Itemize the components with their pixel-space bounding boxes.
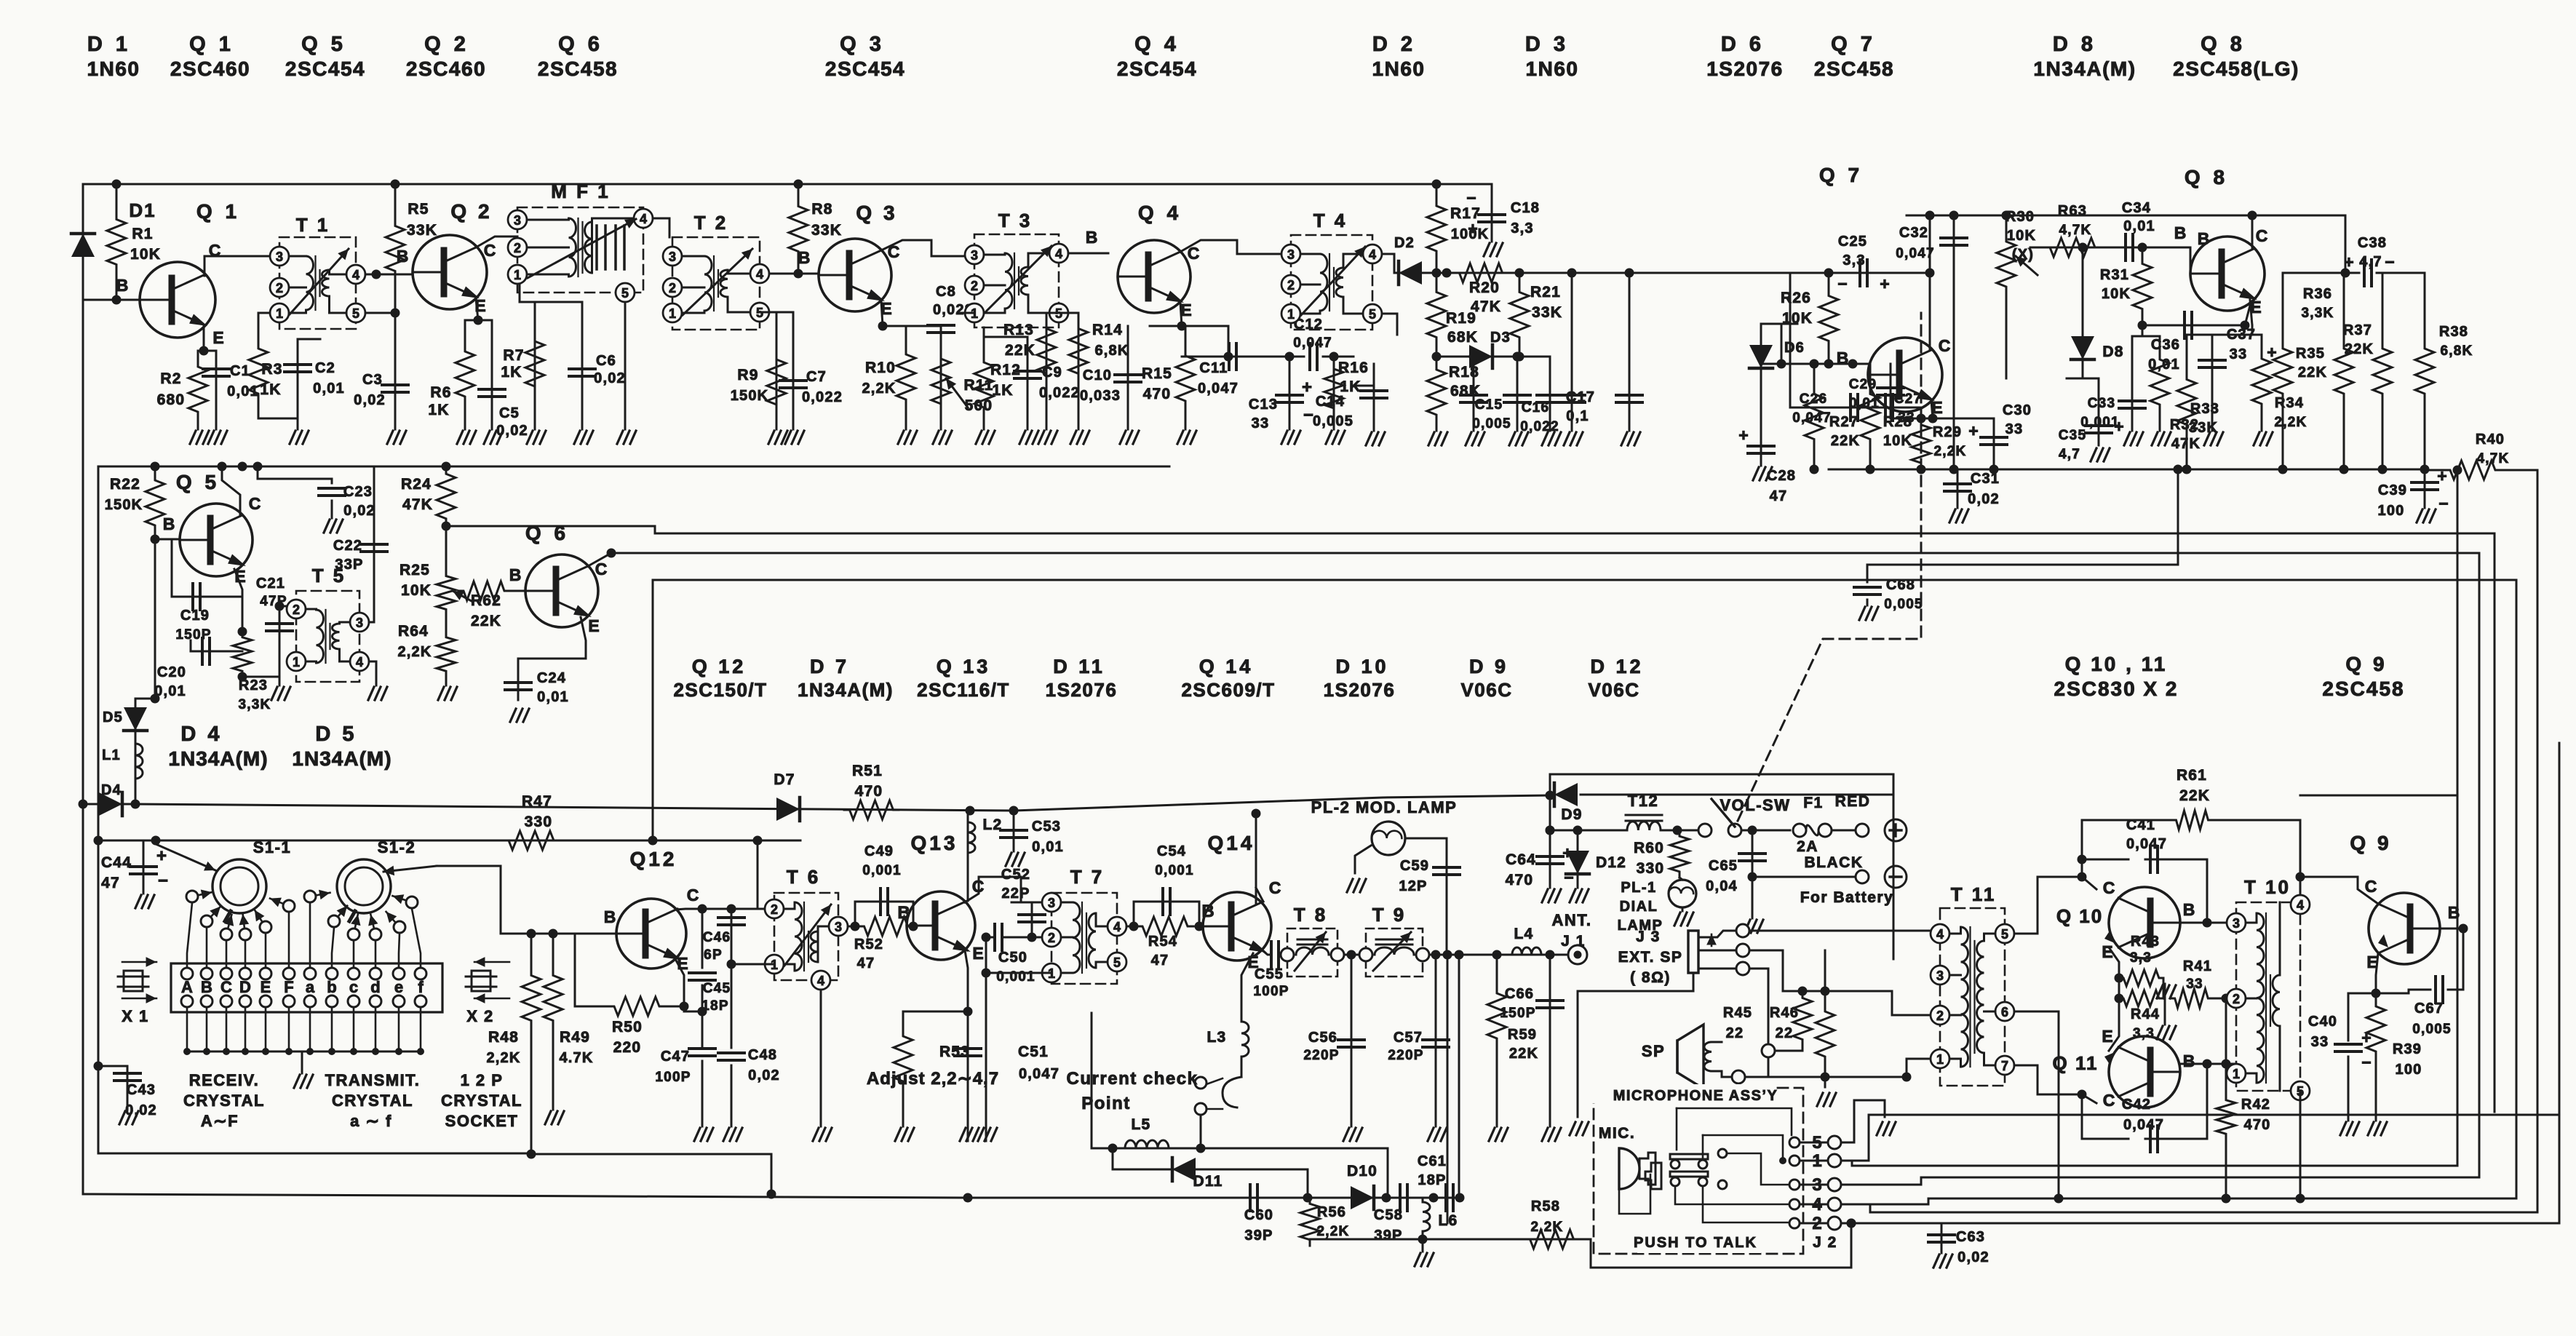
svg-text:Q 7: Q 7	[1831, 33, 1876, 56]
svg-text:2: 2	[2233, 992, 2240, 1006]
svg-text:a ∼ f: a ∼ f	[350, 1112, 392, 1130]
svg-text:22K: 22K	[2345, 341, 2374, 357]
svg-text:R49: R49	[560, 1029, 590, 1046]
svg-text:+: +	[1880, 274, 1889, 293]
svg-text:150P: 150P	[175, 627, 211, 643]
svg-text:2,2K: 2,2K	[397, 644, 432, 660]
svg-text:ANT.: ANT.	[1552, 911, 1592, 929]
svg-text:0,02: 0,02	[1957, 1249, 1989, 1265]
svg-text:C56: C56	[1308, 1030, 1337, 1046]
svg-text:C: C	[249, 494, 261, 513]
svg-text:39P: 39P	[1244, 1228, 1273, 1244]
svg-text:C65: C65	[1709, 858, 1738, 874]
svg-text:R18: R18	[1449, 364, 1479, 381]
svg-text:3: 3	[971, 248, 978, 263]
svg-text:2SC458: 2SC458	[538, 57, 618, 80]
svg-text:Q 12: Q 12	[692, 656, 747, 677]
svg-text:F1: F1	[1803, 795, 1824, 811]
svg-text:10K: 10K	[2007, 228, 2036, 244]
svg-text:0,01: 0,01	[2123, 218, 2155, 234]
svg-text:R64: R64	[398, 623, 429, 640]
svg-text:−: −	[1303, 405, 1313, 425]
svg-text:1S2076: 1S2076	[1324, 679, 1396, 701]
svg-text:0,02: 0,02	[1968, 491, 2000, 507]
svg-text:330: 330	[1637, 860, 1665, 877]
svg-text:R59: R59	[1508, 1027, 1537, 1043]
svg-text:12P: 12P	[1399, 878, 1427, 894]
svg-text:C13: C13	[1249, 397, 1278, 413]
svg-text:V06C: V06C	[1460, 679, 1512, 701]
svg-text:R24: R24	[401, 476, 432, 493]
svg-text:D1: D1	[129, 199, 156, 221]
svg-text:C3: C3	[362, 372, 383, 388]
svg-text:4: 4	[352, 268, 359, 282]
svg-text:R26: R26	[1781, 290, 1811, 306]
svg-text:T 6: T 6	[787, 866, 821, 888]
svg-text:B: B	[2183, 900, 2195, 919]
svg-text:−: −	[1564, 868, 1573, 887]
svg-text:150K: 150K	[105, 497, 143, 513]
svg-text:2,2K: 2,2K	[1934, 444, 1967, 459]
svg-text:R31: R31	[2100, 267, 2129, 283]
svg-text:3: 3	[1936, 969, 1944, 983]
svg-text:22K: 22K	[1509, 1046, 1538, 1062]
svg-text:C25: C25	[1838, 234, 1867, 250]
svg-text:+: +	[1468, 219, 1477, 238]
svg-text:150P: 150P	[1500, 1006, 1535, 1021]
svg-text:X 2: X 2	[466, 1007, 494, 1025]
svg-text:B: B	[2174, 223, 2187, 242]
svg-text:C67: C67	[2414, 1001, 2444, 1017]
svg-text:5: 5	[621, 286, 629, 301]
svg-text:0,01: 0,01	[537, 689, 569, 705]
svg-text:2: 2	[669, 281, 676, 295]
svg-text:D 5: D 5	[315, 723, 357, 746]
svg-text:C61: C61	[1418, 1153, 1447, 1169]
svg-text:2SC830 X 2: 2SC830 X 2	[2054, 677, 2179, 700]
svg-text:L4: L4	[1514, 926, 1534, 942]
svg-text:33K: 33K	[1532, 304, 1562, 321]
svg-text:33: 33	[2186, 977, 2203, 992]
svg-text:L5: L5	[1132, 1116, 1151, 1133]
svg-text:Q 4: Q 4	[1138, 202, 1182, 224]
svg-text:220P: 220P	[1388, 1048, 1423, 1063]
svg-text:0,005: 0,005	[1313, 413, 1353, 429]
svg-text:D11: D11	[1193, 1173, 1223, 1190]
svg-text:5: 5	[1369, 307, 1376, 322]
svg-text:3: 3	[2233, 916, 2240, 931]
svg-text:RECEIV.: RECEIV.	[189, 1071, 260, 1089]
svg-text:R7: R7	[503, 347, 524, 364]
svg-text:C44: C44	[101, 854, 132, 871]
svg-text:Q 1: Q 1	[189, 33, 234, 56]
svg-text:Q 6: Q 6	[558, 33, 603, 56]
svg-text:R1: R1	[132, 226, 153, 242]
svg-text:0,02: 0,02	[748, 1067, 780, 1083]
svg-text:47: 47	[101, 875, 120, 891]
svg-text:0,02: 0,02	[496, 423, 528, 439]
svg-text:D 6: D 6	[1721, 33, 1765, 56]
svg-text:0,02: 0,02	[594, 370, 626, 386]
svg-text:2SC458(LG): 2SC458(LG)	[2173, 57, 2299, 80]
svg-text:C49: C49	[864, 843, 894, 859]
svg-text:R53: R53	[939, 1043, 970, 1060]
svg-text:Q 13: Q 13	[937, 656, 991, 677]
svg-text:SP: SP	[1642, 1042, 1665, 1060]
svg-text:B: B	[604, 907, 616, 926]
svg-text:330: 330	[525, 814, 553, 830]
svg-text:R29: R29	[1933, 424, 1962, 440]
svg-text:C42: C42	[2122, 1097, 2151, 1113]
svg-text:2: 2	[971, 279, 978, 293]
svg-text:4: 4	[640, 212, 647, 226]
svg-text:2SC460: 2SC460	[170, 57, 250, 80]
svg-text:D 11: D 11	[1053, 656, 1105, 677]
svg-text:R13: R13	[1003, 322, 1034, 338]
svg-text:0,1: 0,1	[1566, 408, 1589, 424]
svg-text:CRYSTAL: CRYSTAL	[183, 1092, 265, 1110]
svg-text:3: 3	[276, 250, 283, 264]
svg-text:Q 10 , 11: Q 10 , 11	[2065, 653, 2168, 675]
svg-text:1S2076: 1S2076	[1046, 679, 1118, 701]
svg-text:C10: C10	[1083, 367, 1112, 383]
svg-text:4: 4	[1369, 247, 1376, 262]
svg-text:Q 14: Q 14	[1199, 656, 1254, 677]
svg-text:2A: 2A	[1797, 838, 1818, 855]
svg-text:4: 4	[1055, 247, 1062, 261]
svg-text:C41: C41	[2126, 817, 2155, 833]
svg-text:R36: R36	[2303, 286, 2332, 302]
svg-text:C: C	[687, 886, 699, 904]
svg-text:C43: C43	[127, 1082, 156, 1098]
svg-text:4: 4	[356, 655, 363, 669]
svg-text:2: 2	[771, 902, 778, 917]
svg-text:R52: R52	[854, 937, 883, 953]
svg-text:1K: 1K	[501, 364, 522, 381]
svg-text:1K: 1K	[260, 381, 281, 398]
svg-text:6: 6	[2001, 1005, 2008, 1019]
svg-text:Q 4: Q 4	[1134, 33, 1180, 56]
svg-text:0,022: 0,022	[1039, 385, 1080, 401]
svg-text:C64: C64	[1506, 851, 1536, 868]
svg-text:C1: C1	[230, 363, 250, 379]
svg-text:Q12: Q12	[630, 848, 677, 870]
svg-text:R56: R56	[1317, 1204, 1346, 1220]
svg-text:R44: R44	[2131, 1006, 2160, 1022]
svg-text:C52: C52	[1001, 867, 1030, 883]
svg-text:D10: D10	[1347, 1163, 1378, 1180]
svg-text:2SC454: 2SC454	[285, 57, 365, 80]
svg-text:R60: R60	[1634, 840, 1664, 856]
svg-text:33: 33	[2311, 1034, 2329, 1050]
svg-text:33P: 33P	[335, 557, 363, 573]
svg-text:Q 10: Q 10	[2056, 905, 2103, 927]
svg-text:C: C	[1939, 336, 1951, 355]
svg-text:2: 2	[1936, 1009, 1944, 1023]
svg-text:E: E	[2102, 1027, 2112, 1046]
svg-text:B: B	[2183, 1051, 2195, 1070]
svg-text:0,01: 0,01	[1032, 839, 1064, 855]
svg-text:C53: C53	[1032, 819, 1061, 835]
svg-text:R37: R37	[2343, 322, 2372, 338]
svg-text:47: 47	[1770, 488, 1788, 504]
svg-text:1K: 1K	[992, 382, 1013, 399]
svg-text:C: C	[1269, 878, 1281, 897]
svg-text:C: C	[2365, 877, 2377, 896]
svg-text:X 1: X 1	[122, 1007, 149, 1025]
svg-text:4.7K: 4.7K	[559, 1050, 593, 1066]
svg-text:0,02: 0,02	[125, 1102, 157, 1118]
svg-text:C51: C51	[1018, 1043, 1049, 1060]
svg-text:C2: C2	[315, 360, 335, 376]
svg-text:C46: C46	[703, 930, 731, 945]
svg-text:Point: Point	[1081, 1094, 1131, 1113]
svg-text:22K: 22K	[2298, 365, 2327, 381]
svg-text:10K: 10K	[401, 582, 432, 599]
svg-text:+: +	[2114, 417, 2123, 436]
svg-text:0,02: 0,02	[343, 503, 375, 519]
svg-text:Q 5: Q 5	[301, 33, 346, 56]
svg-text:6,8K: 6,8K	[1094, 343, 1129, 359]
svg-text:1S2076: 1S2076	[1706, 57, 1784, 80]
svg-text:T12: T12	[1628, 792, 1658, 810]
svg-text:R45: R45	[1723, 1005, 1752, 1021]
svg-text:22K: 22K	[1005, 342, 1035, 359]
svg-text:CRYSTAL: CRYSTAL	[441, 1092, 522, 1110]
svg-text:22K: 22K	[1831, 433, 1860, 449]
svg-text:J 2: J 2	[1813, 1234, 1837, 1251]
svg-text:R28: R28	[1883, 414, 1912, 430]
svg-text:1: 1	[669, 306, 676, 321]
svg-text:1: 1	[293, 655, 300, 669]
svg-text:A∼F: A∼F	[201, 1112, 239, 1130]
svg-text:3: 3	[514, 213, 521, 228]
svg-text:For Battery: For Battery	[1800, 889, 1894, 906]
svg-text:S1-1: S1-1	[253, 838, 291, 856]
svg-text:B: B	[509, 565, 522, 584]
svg-text:C45: C45	[703, 981, 731, 996]
svg-text:T 1: T 1	[296, 214, 330, 236]
svg-text:7: 7	[2001, 1059, 2008, 1073]
svg-text:100P: 100P	[1253, 984, 1289, 999]
svg-text:R42: R42	[2241, 1097, 2270, 1113]
svg-text:Q 9: Q 9	[2350, 832, 2391, 854]
svg-text:T 2: T 2	[694, 212, 728, 234]
svg-text:C: C	[484, 241, 496, 260]
svg-text:E: E	[212, 328, 223, 347]
svg-text:R39: R39	[2393, 1041, 2422, 1057]
svg-text:R62: R62	[471, 592, 501, 609]
svg-text:PL-1: PL-1	[1621, 880, 1656, 896]
svg-text:2,2K: 2,2K	[1317, 1224, 1350, 1239]
svg-text:1N34A(M): 1N34A(M)	[2033, 57, 2136, 80]
svg-text:C39: C39	[2378, 482, 2407, 498]
svg-text:C66: C66	[1505, 986, 1534, 1002]
svg-text:+: +	[1302, 378, 1312, 397]
svg-text:22: 22	[1726, 1025, 1744, 1041]
svg-text:C63: C63	[1956, 1229, 1985, 1245]
svg-text:A: A	[181, 978, 193, 996]
svg-text:L6: L6	[1439, 1212, 1458, 1229]
svg-text:S1-2: S1-2	[378, 838, 416, 856]
svg-text:1: 1	[1287, 307, 1295, 322]
svg-text:T 3: T 3	[998, 210, 1033, 231]
svg-text:2SC458: 2SC458	[2322, 677, 2404, 700]
svg-text:33: 33	[2005, 421, 2024, 437]
svg-text:1K: 1K	[428, 402, 449, 418]
svg-text:0,005: 0,005	[2412, 1022, 2452, 1037]
svg-text:10K: 10K	[1883, 433, 1912, 449]
svg-text:R9: R9	[737, 367, 758, 383]
svg-text:2,2K: 2,2K	[1531, 1220, 1564, 1235]
svg-text:100P: 100P	[655, 1070, 691, 1085]
svg-text:a: a	[306, 978, 315, 996]
svg-text:C34: C34	[2122, 200, 2151, 216]
svg-text:C36: C36	[2151, 337, 2180, 353]
svg-text:C28: C28	[1767, 468, 1796, 484]
svg-text:Q 11: Q 11	[2053, 1052, 2099, 1074]
svg-text:D 7: D 7	[810, 656, 849, 677]
svg-text:D3: D3	[1490, 330, 1511, 346]
svg-text:33K: 33K	[2189, 420, 2218, 436]
svg-text:C: C	[2103, 1091, 2115, 1110]
svg-text:E: E	[588, 616, 599, 635]
svg-text:EXT. SP: EXT. SP	[1618, 949, 1683, 966]
svg-text:F: F	[284, 978, 293, 996]
svg-text:33K: 33K	[407, 222, 437, 239]
svg-text:1N34A(M): 1N34A(M)	[292, 747, 391, 770]
svg-text:0,005: 0,005	[1472, 416, 1511, 432]
svg-text:33K: 33K	[811, 222, 842, 239]
svg-text:D2: D2	[1394, 235, 1415, 251]
svg-text:33: 33	[2230, 346, 2248, 362]
svg-text:220: 220	[613, 1039, 642, 1056]
svg-text:Q 2: Q 2	[450, 200, 492, 223]
svg-text:R22: R22	[110, 476, 140, 493]
svg-text:0,033: 0,033	[1080, 388, 1121, 404]
svg-text:C29: C29	[1849, 377, 1877, 392]
svg-text:D 9: D 9	[1469, 656, 1508, 677]
svg-text:D7: D7	[774, 771, 795, 788]
svg-text:2SC458: 2SC458	[1814, 57, 1894, 80]
svg-text:3,3: 3,3	[1511, 220, 1533, 236]
svg-text:C7: C7	[806, 369, 827, 385]
svg-text:R2: R2	[160, 370, 181, 387]
svg-text:0,001: 0,001	[862, 863, 902, 878]
svg-text:DIAL: DIAL	[1620, 899, 1658, 915]
svg-text:1: 1	[276, 306, 283, 321]
svg-text:C22: C22	[333, 538, 362, 554]
svg-text:0,047: 0,047	[2123, 1117, 2164, 1133]
svg-text:V06C: V06C	[1588, 679, 1639, 701]
svg-text:4: 4	[1936, 927, 1944, 942]
svg-text:R58: R58	[1531, 1198, 1560, 1214]
svg-text:4: 4	[2297, 898, 2304, 912]
svg-text:C38: C38	[2358, 235, 2387, 251]
svg-text:C15: C15	[1475, 397, 1503, 413]
svg-text:47K: 47K	[402, 496, 433, 513]
svg-text:2SC150/T: 2SC150/T	[673, 679, 767, 701]
svg-text:−: −	[1837, 274, 1847, 293]
svg-text:R19: R19	[1446, 310, 1476, 327]
svg-text:R15: R15	[1142, 365, 1172, 382]
svg-text:C50: C50	[998, 950, 1027, 966]
svg-text:4,7: 4,7	[2059, 447, 2080, 462]
svg-text:4: 4	[1113, 920, 1121, 934]
svg-text:0,047: 0,047	[2126, 836, 2167, 852]
svg-text:( 8Ω): ( 8Ω)	[1630, 969, 1671, 986]
svg-text:Q13: Q13	[911, 832, 958, 854]
svg-text:L3: L3	[1207, 1029, 1227, 1046]
svg-text:2SC460: 2SC460	[406, 57, 486, 80]
svg-text:R5: R5	[408, 201, 429, 218]
svg-text:2: 2	[1048, 931, 1055, 945]
svg-text:J 3: J 3	[1636, 929, 1661, 945]
svg-text:Q 3: Q 3	[856, 202, 897, 224]
svg-text:4: 4	[756, 267, 763, 282]
svg-text:+: +	[2361, 1028, 2371, 1047]
svg-text:C58: C58	[1374, 1207, 1403, 1223]
svg-text:1 2 P: 1 2 P	[461, 1071, 504, 1089]
svg-text:C30: C30	[2003, 402, 2032, 418]
svg-text:R43: R43	[2131, 934, 2160, 950]
svg-text:R50: R50	[612, 1019, 643, 1035]
svg-text:B: B	[397, 247, 409, 266]
svg-text:22K: 22K	[471, 613, 501, 629]
svg-text:T 4: T 4	[1313, 210, 1348, 231]
svg-text:1: 1	[2233, 1067, 2240, 1081]
svg-text:470: 470	[855, 783, 883, 800]
svg-text:1N60: 1N60	[87, 57, 140, 80]
svg-text:Q 8: Q 8	[2201, 33, 2246, 56]
svg-text:D 12: D 12	[1590, 656, 1643, 677]
svg-text:+: +	[1738, 426, 1748, 445]
svg-text:C5: C5	[499, 405, 520, 421]
svg-text:R40: R40	[2476, 432, 2505, 448]
svg-text:L1: L1	[102, 747, 121, 763]
svg-text:−: −	[158, 871, 168, 891]
svg-text:J 1: J 1	[1561, 933, 1586, 950]
svg-text:47: 47	[857, 955, 875, 971]
svg-text:0,01: 0,01	[313, 381, 345, 397]
svg-text:0,047: 0,047	[1896, 246, 1935, 261]
svg-text:22P: 22P	[1001, 886, 1030, 902]
svg-text:C57: C57	[1394, 1030, 1423, 1046]
svg-text:T 8: T 8	[1294, 904, 1328, 926]
svg-text:R27: R27	[1829, 414, 1859, 430]
svg-text:1N60: 1N60	[1372, 57, 1426, 80]
svg-text:C54: C54	[1157, 843, 1186, 859]
svg-text:Q 8: Q 8	[2185, 166, 2228, 188]
svg-text:R46: R46	[1770, 1005, 1799, 1021]
svg-text:−: −	[2438, 494, 2448, 513]
svg-text:2,2K: 2,2K	[2275, 415, 2307, 430]
svg-text:3: 3	[1287, 247, 1295, 262]
svg-text:0,022: 0,022	[802, 389, 843, 405]
svg-text:C48: C48	[748, 1047, 777, 1063]
svg-text:0,047: 0,047	[1019, 1066, 1060, 1082]
svg-text:B: B	[116, 276, 129, 295]
svg-text:C35: C35	[2059, 428, 2086, 443]
svg-text:TRANSMIT.: TRANSMIT.	[325, 1071, 421, 1089]
svg-text:D 8: D 8	[2053, 33, 2096, 56]
svg-text:4,7K: 4,7K	[2477, 451, 2510, 466]
svg-text:D 3: D 3	[1525, 33, 1569, 56]
svg-text:PUSH TO TALK: PUSH TO TALK	[1634, 1235, 1757, 1251]
svg-text:1N34A(M): 1N34A(M)	[168, 747, 268, 770]
svg-text:3,3K: 3,3K	[2302, 306, 2334, 321]
svg-text:C14: C14	[1316, 394, 1345, 410]
